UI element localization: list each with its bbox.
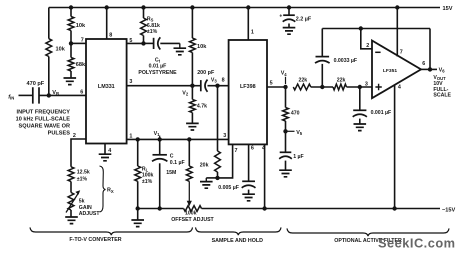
svg-text:2: 2 (73, 133, 76, 139)
wire 4.7k to ground (191, 113, 193, 123)
capacitor 470 pF input coupling (33, 87, 39, 103)
junction V1/RL (136, 137, 140, 141)
ground gain pot (65, 217, 78, 224)
wire 0.0033uF up to feedback rail (321, 29, 323, 57)
wire 1uF to ground (285, 161, 287, 170)
svg-text:10 kHz FULL-SCALE: 10 kHz FULL-SCALE (16, 116, 71, 122)
ground 2.2uF (283, 28, 296, 35)
junction feedback / pin 2 (359, 26, 363, 30)
wire -15V bottom rail left segment (138, 208, 184, 210)
wire V2 to 4.7k (191, 86, 193, 100)
svg-text:LF351: LF351 (383, 68, 397, 74)
junction output V6 (428, 67, 432, 71)
wire V3 down to 20k (crosses V1 line) (217, 86, 219, 151)
svg-text:SAMPLE AND HOLD: SAMPLE AND HOLD (212, 238, 263, 244)
svg-text:V1: V1 (154, 131, 161, 137)
svg-text:2: 2 (366, 43, 369, 49)
svg-text:RS: RS (147, 16, 154, 22)
junction top rail / LM331 pin 8 (105, 5, 109, 9)
svg-text:22k: 22k (299, 78, 308, 84)
resistor 22k first (293, 84, 310, 90)
resistor Rs 6.81k (141, 18, 147, 35)
capacitor 200 pF (200, 80, 202, 91)
resistor RL 100k 1% (137, 139, 139, 166)
brace F-TO-V CONVERTER section (30, 227, 193, 235)
node VB junction (47, 93, 51, 97)
wire rail to 10k divider (70, 8, 72, 17)
wire fIN to coupling cap (19, 94, 33, 96)
svg-text:fIN: fIN (8, 94, 14, 100)
wire LF398 pin 5 to node V4 (267, 86, 286, 88)
junction pin5/Rs/Ct (141, 41, 145, 45)
brace Rx (100, 166, 106, 212)
svg-text:V3: V3 (211, 78, 217, 84)
svg-text:4: 4 (108, 148, 111, 154)
svg-text:100k: 100k (185, 211, 197, 217)
capacitor 0.0033 uF feedback (316, 56, 330, 58)
resistor 20k logic pulldown (215, 151, 221, 172)
wire node to LM331 pin 7 (71, 42, 86, 44)
svg-text:LM331: LM331 (98, 84, 115, 90)
wire LF398 pin 6 to hold cap (248, 144, 250, 181)
resistor 10k to V2 (189, 38, 195, 52)
svg-text:3: 3 (129, 79, 132, 85)
capacitor 0.001 uF (353, 109, 366, 111)
wire rail to 2.2uF bypass (288, 8, 290, 16)
svg-text:±1%: ±1% (142, 179, 153, 185)
ground 0.001uF (354, 124, 367, 131)
wire LF398 pin 1 to rail (247, 8, 249, 41)
capacitor 0.005 uF hold (242, 180, 255, 182)
svg-text:GAIN: GAIN (79, 205, 92, 211)
junction top rail / 2.2uF bypass (287, 5, 291, 9)
svg-text:5: 5 (270, 81, 273, 87)
junction rail / LF351 pin 4 (392, 206, 396, 210)
svg-text:VB: VB (52, 90, 59, 96)
svg-text:OFFSET ADJUST: OFFSET ADJUST (171, 217, 214, 223)
capacitor C 0.1 uF filter (159, 139, 161, 154)
ground hold cap (242, 194, 255, 201)
svg-text:2.2 µF: 2.2 µF (296, 16, 312, 22)
junction pin 7 node (69, 41, 73, 45)
wire 22k to junction (311, 86, 333, 88)
svg-text:ADJUST: ADJUST (79, 211, 101, 217)
brace OPTIONAL ACTIVE FILTER section (287, 228, 449, 236)
svg-text:PULSES: PULSES (48, 131, 71, 137)
node V3 junction (215, 84, 219, 88)
wire junction to LF398 pin 7 (218, 144, 233, 178)
wire pot to ground (70, 210, 72, 217)
junction V1/15M (187, 137, 191, 141)
node V2 junction (190, 84, 194, 88)
resistor 4.7k (189, 99, 195, 112)
junction top rail / LF398 pin 1 (246, 5, 250, 9)
junction rail / RL ground (136, 206, 140, 210)
wire cap to node VB and LM331 pin 6 (39, 94, 86, 96)
svg-text:10V: 10V (433, 81, 443, 87)
svg-text:3: 3 (223, 133, 226, 139)
svg-text:0.005 µF: 0.005 µF (218, 185, 239, 191)
svg-text:SQUARE WAVE OR: SQUARE WAVE OR (19, 124, 71, 130)
wire LM331 pin 4 to ground (104, 144, 106, 154)
wire rail to Rs (143, 8, 145, 19)
junction rail / C (158, 206, 162, 210)
wire LF351 pin 4 to -15V rail (394, 85, 396, 209)
ground 4.7k (186, 123, 199, 130)
svg-text:15V: 15V (443, 6, 453, 12)
wire -15V bottom rail right segment (202, 208, 441, 210)
svg-text:5k: 5k (79, 199, 85, 205)
wire node to Ct (144, 42, 154, 44)
wire 2.2uF to ground (288, 24, 290, 28)
svg-text:6: 6 (80, 89, 83, 95)
svg-text:±1%: ±1% (147, 29, 158, 35)
svg-text:7: 7 (235, 148, 238, 154)
svg-text:22k: 22k (337, 78, 346, 84)
svg-text:SCALE: SCALE (433, 93, 451, 99)
svg-text:200 pF: 200 pF (197, 70, 215, 76)
wire 10k to node VB (48, 57, 50, 96)
junction top rail / Rs (141, 5, 145, 9)
wire junction up to 0.0033uF (321, 64, 323, 87)
wire feedback rail (322, 28, 430, 30)
svg-text:0.1 µF: 0.1 µF (170, 160, 185, 166)
wire 20k to ground junction (217, 172, 219, 178)
svg-text:LF398: LF398 (240, 84, 256, 90)
svg-text:3: 3 (365, 81, 368, 87)
wire RL junction to ground (137, 209, 139, 220)
wire Rs to pin 5 node (143, 36, 145, 44)
capacitor 1 uF (285, 131, 287, 152)
wire rail to 10k (191, 8, 193, 39)
svg-text:68k: 68k (76, 62, 86, 68)
svg-text:±1%: ±1% (77, 177, 88, 183)
wire LM331 pin 5 to node (127, 42, 144, 44)
svg-text:0.0033 µF: 0.0033 µF (334, 58, 357, 64)
junction top rail / LF351 pin 7 (395, 5, 399, 9)
potentiometer 100k offset adjust (184, 206, 202, 212)
wire hold cap to ground (248, 190, 250, 194)
capacitor Ct 0.01 uF polystyrene (153, 38, 155, 49)
wire C to -15V rail (159, 163, 161, 208)
op-amp U1 LM331 converter box (86, 39, 127, 144)
resistor 470 damping (285, 87, 287, 108)
potentiometer 5k gain adjust (68, 193, 74, 211)
svg-text:POLYSTYRENE: POLYSTYRENE (138, 70, 177, 76)
ground logic reference (200, 182, 213, 189)
wire 12.5k to 5k pot (70, 182, 72, 193)
junction top rail / 10k pullup (69, 5, 73, 9)
svg-text:7: 7 (81, 38, 84, 44)
wire 68k to ground (70, 71, 72, 78)
svg-text:V4: V4 (281, 71, 288, 77)
svg-text:4.7k: 4.7k (197, 104, 207, 110)
wire LM331 pin 3 to node V2 (127, 85, 193, 87)
wire 0.001uF to ground (359, 119, 361, 124)
node V5 junction (283, 129, 287, 133)
wire feedback down to output (429, 29, 431, 70)
svg-text:5: 5 (129, 38, 132, 44)
svg-text:INPUT FREQUENCY: INPUT FREQUENCY (17, 109, 71, 115)
svg-text:6.81k: 6.81k (147, 23, 160, 29)
wire LF351 pin 7 to +15V rail (396, 8, 398, 57)
wire 200pF to node V3 and LF398 pin 8 (208, 85, 229, 87)
junction 20k/ground/pin7 (215, 176, 219, 180)
svg-text:1: 1 (251, 30, 254, 36)
wire feedback down to LF351 pin 2 (361, 29, 372, 49)
wire V2 to 200pF (192, 85, 200, 87)
ground 1uF (279, 170, 292, 177)
resistor 22k second (333, 84, 347, 90)
wire LF351 output to V6 (421, 68, 437, 70)
svg-text:V2: V2 (182, 90, 189, 96)
svg-text:7: 7 (400, 50, 403, 56)
op-amp U2 LF398 sample-hold box (229, 40, 267, 144)
svg-text:6: 6 (422, 61, 425, 67)
svg-text:8: 8 (222, 78, 225, 84)
junction top rail / 10k to V2 (190, 5, 194, 9)
wire 10k to pin7 node (70, 31, 72, 44)
svg-text:V6: V6 (439, 68, 446, 74)
capacitor 2.2 uF bypass (283, 14, 295, 16)
svg-text:V5: V5 (296, 130, 303, 136)
svg-text:10k: 10k (197, 44, 207, 50)
node V1 junction and tick (158, 137, 162, 141)
junction 22k/0.0033uF (320, 85, 324, 89)
svg-text:8: 8 (109, 33, 112, 39)
svg-text:10k: 10k (56, 46, 66, 52)
svg-text:20k: 20k (200, 163, 209, 169)
wire node down to 68k (70, 43, 72, 57)
wire +15V top supply rail (49, 7, 440, 9)
svg-text:100k: 100k (142, 173, 154, 179)
svg-text:6: 6 (251, 145, 254, 151)
wire junction to ground (206, 177, 217, 179)
resistor 10k divider upper (68, 17, 74, 31)
wire rail corner down to 10k (48, 8, 50, 39)
svg-text:1 µF: 1 µF (293, 154, 303, 160)
svg-text:4: 4 (398, 85, 401, 91)
wire LM331 pin 8 to rail (106, 8, 108, 40)
wire RL to -15V rail (137, 181, 139, 208)
node V4 junction and tick (283, 85, 287, 89)
op-amp U3 LF351 (372, 41, 421, 99)
junction rail / LF398 pin 4 (262, 206, 266, 210)
svg-text:RX: RX (107, 188, 114, 194)
svg-text:−15V: −15V (442, 207, 455, 213)
ground Ct (179, 43, 181, 48)
wire junction to 0.001uF (359, 87, 361, 110)
wire 22k to LF351 pin 3 (347, 86, 373, 88)
wire 470 to node V5 (285, 121, 287, 131)
ground 68k (64, 78, 77, 85)
wire Ct to ground (160, 42, 180, 44)
resistor 12.5k 1% gain (68, 167, 74, 182)
svg-text:470 pF: 470 pF (27, 81, 45, 87)
resistor 68k divider lower (68, 58, 74, 72)
ground signal common (131, 220, 144, 227)
svg-text:15M: 15M (166, 170, 176, 176)
wire LF398 pin 4 to -15V rail (264, 144, 266, 208)
resistor 15M offset feed (188, 139, 190, 166)
svg-text:10k: 10k (76, 23, 86, 29)
svg-text:+: + (279, 13, 282, 19)
wire LM331 pin1 / node V1 line to LF398 pin 3 (127, 138, 229, 140)
wire LM331 pin 2 to Rx (71, 139, 86, 167)
svg-text:SeekIC.com: SeekIC.com (378, 236, 456, 251)
brace SAMPLE AND HOLD section (196, 227, 282, 235)
svg-text:1: 1 (129, 134, 132, 140)
svg-text:C: C (170, 154, 174, 160)
svg-text:F-TO-V CONVERTER: F-TO-V CONVERTER (69, 237, 121, 243)
wire 15M to pot wiper arrow (188, 181, 190, 201)
wire 10k to node V2 (191, 53, 193, 86)
ground LM331 pin 4 (99, 154, 112, 161)
svg-text:0.001 µF: 0.001 µF (371, 110, 392, 116)
svg-text:0.01 µF: 0.01 µF (149, 64, 167, 70)
svg-text:470: 470 (291, 111, 300, 117)
svg-text:12.5k: 12.5k (77, 170, 90, 176)
resistor 10k input bias (46, 39, 52, 57)
junction pin3/0.001uF (358, 85, 362, 89)
